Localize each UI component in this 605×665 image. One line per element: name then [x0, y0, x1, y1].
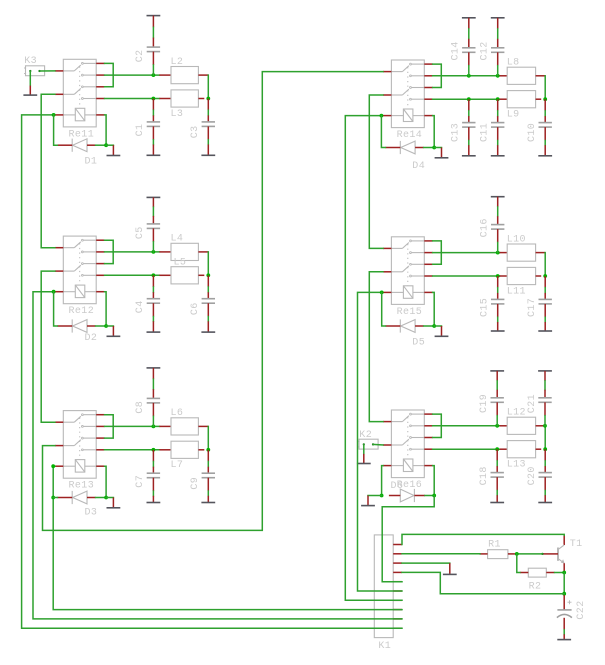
wire	[207, 317, 209, 322]
wire output node	[207, 426, 209, 449]
wire R1 to T1 base	[516, 553, 542, 555]
pin C8 lower lead	[152, 403, 154, 416]
wire	[207, 140, 209, 145]
wire Re13 coil stub	[53, 465, 55, 467]
pin L5 left	[159, 274, 171, 276]
junction	[152, 73, 156, 77]
wire K2 to Re16	[373, 443, 383, 446]
pin C19 lower lead	[496, 402, 498, 415]
junction	[543, 274, 547, 278]
pin C6 lead	[207, 292, 209, 299]
svg-text:L12: L12	[507, 408, 526, 419]
capacitor C6	[202, 299, 215, 304]
wire diode to junction	[96, 144, 107, 146]
pin L6 left	[159, 425, 171, 427]
wire coil to diode	[105, 115, 107, 145]
wire	[497, 29, 499, 39]
wire diode to junction	[96, 325, 107, 327]
pin C10 lead	[544, 116, 546, 123]
svg-text:K1: K1	[378, 641, 391, 652]
pin C16 lower lead	[497, 229, 499, 242]
svg-text:K3: K3	[24, 56, 37, 67]
junction Re13 coil	[51, 464, 55, 468]
capacitor C10	[539, 123, 552, 128]
pin C9 lower lead	[207, 478, 209, 491]
wire	[152, 110, 154, 115]
pin L10 right	[536, 252, 546, 254]
ground at K3	[23, 86, 37, 96]
wire diode to junction	[424, 147, 435, 149]
svg-text:R1: R1	[488, 539, 501, 550]
pin C5 upper lead	[152, 216, 154, 224]
junction	[206, 97, 210, 101]
wire coil to diode	[105, 466, 107, 497]
junction base node	[515, 552, 519, 556]
junction Re12 coil	[52, 290, 56, 294]
supply bar above C16	[491, 196, 505, 198]
svg-text:D5: D5	[412, 338, 425, 349]
pin C4 lower lead	[152, 303, 154, 316]
svg-text:C21: C21	[527, 394, 538, 413]
transistor T1	[542, 535, 564, 572]
pin C8 top lead	[152, 368, 154, 379]
wire	[106, 325, 113, 327]
wire	[207, 462, 209, 467]
junction	[152, 425, 156, 429]
junction	[495, 424, 499, 428]
svg-text:D4: D4	[412, 161, 425, 172]
wire K2 to ground	[363, 444, 365, 454]
diode D4	[385, 141, 423, 154]
capacitor C20	[539, 473, 552, 478]
pin L7 left	[159, 449, 171, 451]
diode D6	[389, 489, 425, 502]
K3 pin 2	[38, 70, 40, 72]
pin C14 upper lead	[468, 39, 470, 48]
wire Re11 com2 to Re12 com1	[41, 94, 55, 247]
pin L9 right	[536, 98, 542, 100]
pin C18 lead	[496, 466, 498, 473]
ground below C6	[201, 321, 215, 332]
capacitor C1	[147, 122, 160, 127]
pin C14 lower lead	[468, 52, 470, 65]
pin C21 lower lead	[544, 402, 546, 415]
wire	[152, 140, 154, 145]
wire K1 pin7 to Re14 coil	[345, 116, 402, 601]
svg-text:C12: C12	[480, 41, 491, 60]
inductor L7	[171, 441, 198, 458]
pin L12 left	[500, 425, 508, 427]
svg-text:Re14: Re14	[397, 130, 423, 141]
junction Re15 coil	[380, 291, 384, 295]
svg-text:C22: C22	[576, 600, 587, 619]
ground at diode	[107, 498, 121, 508]
resistor R2	[520, 568, 555, 577]
wire K1 pin2 to R1	[402, 553, 480, 555]
pin L13 right	[536, 448, 542, 450]
svg-text:K2: K2	[359, 430, 372, 441]
pin L3 right	[198, 98, 204, 100]
svg-text:L3: L3	[171, 109, 184, 120]
capacitor C4	[147, 299, 160, 304]
wire	[496, 381, 498, 390]
wire output node	[207, 75, 209, 98]
junction Re11 coil	[52, 113, 56, 117]
ground below C7	[147, 496, 161, 503]
wire to D2	[54, 292, 58, 326]
junction	[543, 447, 547, 451]
wire	[152, 207, 154, 216]
supply bar above C8	[147, 367, 161, 369]
wire output node	[207, 252, 209, 275]
wire	[496, 491, 498, 496]
junction	[152, 97, 156, 101]
wire	[152, 27, 154, 37]
wire row4	[105, 274, 160, 276]
capacitor C11	[491, 123, 504, 128]
pin C11 lower lead	[497, 127, 499, 140]
wire K3 to Re11	[40, 70, 55, 72]
diode D1	[57, 139, 95, 152]
pin C11 upper lead	[497, 99, 499, 111]
wire row2	[433, 252, 500, 254]
pin C5 lower lead	[152, 228, 154, 241]
wire row4	[433, 448, 500, 450]
pin C11 lead	[497, 116, 499, 123]
pin C6 lower lead	[207, 303, 209, 316]
wire base node to R2	[517, 554, 520, 573]
junction Re14 coil	[380, 114, 384, 118]
K3 pin 1	[29, 70, 31, 72]
resistor R1	[480, 550, 516, 559]
wire	[152, 65, 154, 75]
svg-text:C1: C1	[135, 124, 146, 137]
junction	[152, 448, 156, 452]
pin C13 lead	[468, 116, 470, 123]
T1 base pin dot	[541, 553, 543, 555]
wire	[152, 416, 154, 426]
junction	[543, 424, 547, 428]
wire	[544, 461, 546, 466]
junction	[467, 74, 471, 78]
pin C2 top lead	[152, 16, 154, 28]
wire	[496, 461, 498, 466]
ground at diode	[107, 145, 121, 155]
K2 pin 2	[372, 443, 374, 445]
pin C20 lower lead	[544, 477, 546, 490]
svg-text:L2: L2	[171, 57, 184, 68]
ground at diode	[107, 326, 121, 336]
wire row2	[433, 425, 500, 427]
capacitor C14	[462, 48, 475, 53]
pin L3 left	[159, 98, 171, 100]
svg-text:T1: T1	[570, 539, 583, 550]
wire	[152, 242, 154, 252]
svg-text:C15: C15	[480, 298, 491, 317]
pin C15 upper lead	[497, 276, 499, 288]
wire Re14 com2 to Re15 com1	[369, 95, 383, 248]
wire	[497, 66, 499, 76]
svg-text:Re13: Re13	[69, 481, 95, 492]
capacitor C21	[538, 398, 551, 403]
wire K1 pin10 to Re11 coil	[22, 115, 402, 628]
wire	[152, 379, 154, 389]
pin C2 upper lead	[152, 38, 154, 48]
wire	[434, 325, 441, 327]
junction	[543, 97, 547, 101]
wire to D3	[53, 497, 57, 499]
wire	[497, 141, 499, 146]
inductor L9	[507, 91, 535, 108]
connector K1	[374, 535, 402, 638]
svg-text:L11: L11	[507, 286, 526, 297]
inductor L4	[171, 243, 198, 260]
wire K1 pin9 to Re12 coil	[33, 292, 402, 619]
pin C7 lead	[152, 467, 154, 474]
pin C1 lower lead	[152, 126, 154, 139]
wire	[497, 288, 499, 293]
capacitor C2	[147, 47, 160, 52]
ground below C15	[491, 322, 505, 331]
wire diode to junction	[424, 325, 435, 327]
ground below C20	[538, 495, 552, 502]
supply bar above C21	[538, 370, 552, 372]
pin C9 lead	[207, 467, 209, 474]
wire emitter down	[563, 573, 565, 594]
wire	[544, 111, 546, 116]
pin C6 upper lead	[207, 275, 209, 287]
svg-text:C17: C17	[527, 298, 538, 317]
junction diode right	[104, 143, 108, 147]
capacitor C22	[557, 595, 572, 630]
svg-text:C16: C16	[480, 218, 491, 237]
junction	[496, 274, 500, 278]
svg-text:C5: C5	[135, 226, 146, 239]
capacitor C17	[539, 299, 552, 304]
svg-text:D6: D6	[391, 481, 404, 492]
junction	[152, 250, 156, 254]
wire NC loop	[433, 241, 442, 264]
svg-text:C9: C9	[190, 477, 201, 490]
pin L10 left	[500, 252, 508, 254]
junction diode right	[432, 324, 436, 328]
inductor L3	[171, 90, 198, 107]
wire row4	[105, 98, 160, 100]
svg-text:L5: L5	[174, 257, 187, 268]
junction diode right	[104, 324, 108, 328]
wire to D1	[54, 115, 58, 145]
junction emitter node	[562, 571, 566, 575]
wire row2	[433, 75, 500, 77]
wire	[497, 317, 499, 322]
wire	[468, 141, 470, 146]
ground at D6 left	[361, 496, 375, 506]
K2 pin 1	[363, 443, 365, 445]
svg-text:C14: C14	[451, 41, 462, 60]
wire	[544, 416, 546, 426]
wire NC loop	[433, 414, 442, 437]
wire	[106, 497, 113, 499]
capacitor C13	[462, 123, 475, 128]
ground below C3	[201, 145, 215, 156]
pin L4 right	[198, 251, 208, 253]
ground below C10	[538, 145, 552, 156]
wire Re16 coil to D6	[382, 466, 383, 496]
svg-text:C13: C13	[451, 123, 462, 142]
pin C5 top lead	[152, 197, 154, 207]
pin C17 lead	[544, 293, 546, 300]
junction	[206, 448, 210, 452]
pin C21 top lead	[544, 371, 546, 381]
wire	[468, 29, 470, 39]
junction diode right	[432, 494, 436, 498]
wire coil to diode	[433, 466, 435, 496]
wire	[497, 243, 499, 253]
capacitor C5	[147, 224, 160, 229]
wire	[496, 416, 498, 426]
junction D6 left	[380, 494, 384, 498]
wire row2	[105, 425, 160, 427]
wire coil to diode	[105, 292, 107, 326]
inductor L10	[507, 244, 535, 261]
wire D6 left to ground	[368, 495, 382, 497]
pin C3 upper lead	[207, 99, 209, 111]
svg-text:D2: D2	[85, 333, 98, 344]
svg-text:C3: C3	[190, 125, 201, 138]
pin L2 left	[159, 74, 171, 76]
pin C14 top lead	[468, 18, 470, 29]
ground at K2	[357, 454, 371, 464]
svg-text:L10: L10	[507, 234, 526, 245]
pin L8 left	[500, 75, 508, 77]
junction D3 left	[51, 496, 55, 500]
connector K3	[24, 66, 45, 76]
wire K1 pin4 to emitter node	[402, 572, 564, 593]
wire coil to diode	[433, 292, 435, 326]
pin C13 upper lead	[468, 99, 470, 111]
supply bar above C2	[147, 15, 161, 17]
wire diode to junction	[425, 495, 434, 497]
svg-text:L13: L13	[507, 460, 526, 471]
wire row2	[105, 251, 160, 253]
ground below C13	[462, 145, 476, 156]
pin L13 left	[500, 448, 508, 450]
wire R2 to emitter	[555, 572, 565, 574]
ground below C1	[147, 145, 161, 156]
junction	[495, 447, 499, 451]
pin C20 lead	[544, 466, 546, 473]
junction	[152, 273, 156, 277]
wire Re15 com2 to Re16 com1	[369, 272, 383, 422]
svg-text:C11: C11	[480, 123, 491, 142]
wire output node	[544, 76, 546, 99]
wire	[152, 462, 154, 467]
wire row4	[105, 449, 160, 451]
relay Re12	[55, 236, 105, 304]
pin C10 lower lead	[544, 127, 546, 140]
wire K1 pin8 to Re13 coil	[53, 466, 402, 609]
svg-text:D3: D3	[85, 508, 98, 519]
capacitor C12	[491, 48, 504, 53]
relay Re13	[55, 411, 105, 479]
svg-text:L9: L9	[507, 110, 520, 121]
svg-text:C4: C4	[135, 300, 146, 313]
pin C17 upper lead	[544, 276, 546, 288]
inductor L8	[507, 67, 535, 84]
pin C8 upper lead	[152, 389, 154, 398]
diode D2	[57, 319, 95, 332]
capacitor C19	[491, 398, 504, 403]
wire NC loop	[105, 415, 114, 438]
supply bar above C12	[491, 17, 505, 19]
pin L11 right	[536, 275, 542, 277]
pin C16 top lead	[497, 197, 499, 207]
pin L5 right	[198, 274, 204, 276]
svg-text:C10: C10	[527, 123, 538, 142]
wire K3 to ground	[29, 71, 31, 86]
ground below C18	[490, 495, 504, 502]
junction	[496, 74, 500, 78]
pin C12 lower lead	[497, 52, 499, 65]
junction diode right	[104, 496, 108, 500]
wire	[152, 491, 154, 496]
pin L7 right	[198, 449, 204, 451]
wire	[152, 317, 154, 322]
wire	[207, 287, 209, 292]
capacitor C16	[491, 225, 504, 230]
svg-text:C8: C8	[135, 401, 146, 414]
relay Re16	[383, 410, 433, 478]
junction	[467, 97, 471, 101]
svg-text:C7: C7	[135, 475, 146, 488]
relay Re15	[383, 237, 433, 305]
pin C3 lead	[207, 115, 209, 122]
svg-text:L7: L7	[171, 460, 184, 471]
wire C22 to ground	[563, 630, 565, 635]
capacitor C18	[491, 473, 504, 478]
pin L12 right	[536, 425, 546, 427]
wire	[434, 147, 441, 149]
wire row4	[433, 98, 500, 100]
diode D5	[385, 319, 423, 332]
wire K1 pin5 to D6	[382, 496, 434, 582]
pin L11 left	[500, 275, 508, 277]
pin C17 lower lead	[544, 304, 546, 317]
pin C21 upper lead	[544, 390, 546, 398]
pin C4 lead	[152, 292, 154, 299]
inductor L6	[171, 418, 198, 435]
wire	[152, 287, 154, 292]
wire Re12 com2 to Re13 com1	[41, 271, 55, 422]
svg-text:C20: C20	[527, 466, 538, 485]
pin C2 lower lead	[152, 52, 154, 65]
relay Re14	[383, 60, 433, 128]
wire	[544, 317, 546, 322]
inductor L11	[507, 267, 535, 284]
pin C7 upper lead	[152, 450, 154, 462]
pin L9 left	[500, 98, 508, 100]
pin C15 lower lead	[497, 304, 499, 317]
inductor L13	[507, 441, 535, 458]
pin C12 upper lead	[497, 39, 499, 48]
wire	[497, 207, 499, 216]
supply bar above C5	[147, 196, 161, 198]
svg-text:Re12: Re12	[69, 306, 95, 317]
pin C15 lead	[497, 293, 499, 300]
wire	[207, 110, 209, 115]
wire	[468, 111, 470, 116]
pin L6 right	[198, 425, 208, 427]
